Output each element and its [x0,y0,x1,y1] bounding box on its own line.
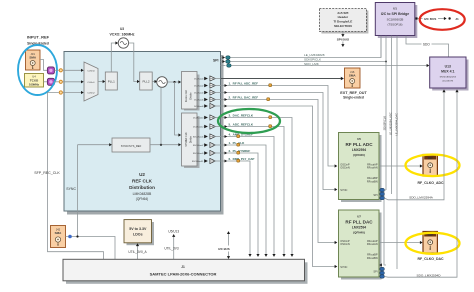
svg-text:Distribution: Distribution [129,185,155,190]
svg-text:Divider: Divider [190,92,193,99]
svg-text:SYNC: SYNC [340,265,347,269]
buffer row DCLKout2 [194,83,220,88]
SPI pin bubbles on U2 [221,56,232,67]
svg-text:SPI: SPI [373,270,377,274]
svg-text:RF_CLKO_DAC: RF_CLKO_DAC [417,257,444,261]
pin dot PL_CLK [237,143,240,146]
wire PLL2 to VCO [152,80,157,83]
svg-text:LE_LMX2594_DAC: LE_LMX2594_DAC [395,113,399,136]
svg-text:OSCinN: OSCinN [340,166,350,170]
wire J31 to balun [40,60,47,71]
pin dot DAC_REFCLK [269,116,272,119]
svg-text:RFoutBN: RFoutBN [367,256,378,260]
buffer row DCLKout8 [194,103,220,108]
wire SYSREF to U7 SYNC [221,105,338,269]
svg-text:UTIL_3V3: UTIL_3V3 [164,247,179,251]
svg-text:2. RF PLL DAC_REF: 2. RF PLL DAC_REF [229,95,259,99]
buffer row DCLKout6 [194,97,220,102]
svg-text:SN74CB3Q3253: SN74CB3Q3253 [440,77,457,79]
wire EXT_REF_OUT feed to J16 [221,77,344,80]
svg-text:SAMTEC LPAM-20X6-CONNECTOR: SAMTEC LPAM-20X6-CONNECTOR [150,271,217,276]
svg-text:REF CLK: REF CLK [132,179,153,184]
input mux inside U2 [84,62,98,101]
svg-text:SDO_LMK: SDO_LMK [304,62,320,66]
U2 REF CLK Distribution block (LMK04828B) [64,52,224,215]
svg-text:SFP_REC_CLK: SFP_REC_CLK [34,171,60,175]
svg-text:VCXO: 160MHz: VCXO: 160MHz [109,33,134,37]
svg-text:U13: U13 [445,65,451,69]
svg-text:U5: U5 [357,137,361,141]
svg-text:SMP: SMP [428,235,433,237]
svg-text:SDI/SPICLK: SDI/SPICLK [383,116,387,131]
svg-text:CLKin2: CLKin2 [87,93,95,95]
wire SPICLK jog to U7 [384,190,386,265]
wire I2C BUS stub to connector [227,231,230,259]
pin CLKin1 [59,80,62,83]
red ellipse highlight I2C BUS [420,9,465,30]
svg-text:DCLKout12: DCLKout12 [193,126,204,129]
svg-text:RFoutAN: RFoutAN [367,242,378,246]
svg-text:SMP: SMP [428,158,433,160]
green ellipse highlight REFCLK nets [218,109,280,133]
svg-text:INPUT_REF: INPUT_REF [27,35,50,40]
svg-text:LMX2594: LMX2594 [352,226,366,230]
wire U7 RFoutA to SMA [379,241,423,244]
svg-text:LDOs: LDOs [133,233,143,237]
svg-text:DCLKout10: DCLKout10 [193,117,204,120]
SMA connector J31 [26,50,41,70]
svg-text:DCLKout6: DCLKout6 [194,99,204,102]
pin CLKin0 [59,69,62,72]
wire pin CLKin1 to mux [63,80,84,83]
2x5 SPI header selection box [319,9,368,34]
svg-text:EXT_REF_OUT: EXT_REF_OUT [340,91,367,95]
svg-text:DCLKout8: DCLKout8 [194,105,204,108]
wire U1 pin LE_DAC riser [396,36,398,269]
arrow into MUX bottom A [442,89,445,92]
svg-text:UTIL_3V0_A: UTIL_3V0_A [128,250,147,254]
svg-text:PLL1: PLL1 [108,80,115,84]
connector J1 SAMTEC [63,259,308,284]
svg-text:(QFN40): (QFN40) [353,153,365,157]
wire RF PLL DAC_REF [221,98,338,244]
SMA connector RF_CLKO_DAC [423,232,437,254]
wire U1 pin LE_LMK down [380,36,382,58]
svg-text:RF PLL DAC: RF PLL DAC [345,219,373,224]
svg-text:TI Dongle/LE: TI Dongle/LE [333,20,352,24]
balun input 0 [47,67,54,74]
wire SYSREF to U5 SYNC [221,91,338,191]
wire mux to PLL1 [98,80,105,83]
wire SFP_REC_CLK riser [48,93,104,260]
svg-text:PLL2: PLL2 [142,80,149,84]
wire PL_CLK to connector [221,144,268,257]
svg-text:DCLKout0: DCLKout0 [194,78,204,81]
svg-text:5V to 3.3V: 5V to 3.3V [129,227,147,231]
wire VCXO to PLL2 [129,43,140,83]
svg-text:(QFN40): (QFN40) [353,230,365,234]
wire VCO to divider1 [167,80,181,83]
svg-text:RFoutBN: RFoutBN [367,179,378,183]
svg-text:SDCLKout11: SDCLKout11 [192,160,204,163]
svg-text:3. DAC_REFCLK: 3. DAC_REFCLK [229,113,254,117]
buffer row SDCLKout1 [193,115,220,120]
svg-text:J1: J1 [181,265,185,269]
wire VCO branch down to divider2 [175,82,182,137]
svg-text:1. RF PLL ADC_REF: 1. RF PLL ADC_REF [229,81,259,85]
svg-text:DCLKout2: DCLKout2 [194,85,204,88]
svg-text:CLKin0: CLKin0 [87,71,95,73]
svg-text:LE_LMK04828: LE_LMK04828 [304,53,325,57]
wire RF PLL ADC_REF [221,84,338,168]
U7 RF PLL DAC (LMX2594) [339,210,382,280]
wire connector to LDO [136,243,139,259]
svg-text:U5/U13: U5/U13 [168,230,179,234]
wire pin CLKin2 to mux [63,91,84,94]
wire connector to U5/U13 3V3 [172,234,175,259]
wire SDI/SPICLK bus [230,61,386,63]
buffer row SDCLKout3 [193,124,220,129]
U13 MUX 4:1 [430,57,469,91]
wire SPICLK riser to LMX [385,62,387,191]
svg-text:CLKin1: CLKin1 [87,82,95,84]
svg-text:6. DDR_PLY_CAP: 6. DDR_PLY_CAP [229,157,255,161]
wire SYNC/SYSREF box to divider2 [150,143,181,146]
svg-text:SMA: SMA [29,56,37,60]
SPI pin bubbles U7 [379,263,384,278]
svg-text:MUX 4:1: MUX 4:1 [441,70,454,74]
svg-text:I2C BUS: I2C BUS [424,17,436,21]
U5 RF PLL ADC (LMX2594) [339,133,382,203]
TCXO U4 [25,74,44,88]
divider block 1 [182,72,200,111]
divider block 2 [182,113,200,168]
wire U1 pin SDI/SPICLK down [385,36,387,62]
yellow ellipse highlight RF_CLKO_ADC [406,155,460,177]
wire TCXO to balun [44,81,48,83]
svg-text:Single-ended: Single-ended [343,95,364,99]
svg-text:I2C to SPI Bridge: I2C to SPI Bridge [381,12,409,16]
wire AMS_SYSREF to connector [221,135,276,257]
buffer row SDCLKout9 [193,150,221,155]
wire LE_LMK04828 bus [230,36,381,58]
svg-text:LE_LMX2594_ADC: LE_LMX2594_ADC [389,112,393,135]
svg-text:(QFN64): (QFN64) [136,197,148,201]
buffer row SDCLKout7 [193,142,221,147]
wire DAC_REFCLK to connector [221,116,294,257]
node SYNC junction [76,235,78,237]
svg-text:J1: J1 [455,17,459,21]
svg-text:SYNC: SYNC [66,187,76,191]
wire pin CLKin0 to mux [63,69,84,72]
buffer row DCLKout4 [194,90,220,95]
svg-text:SDCLKout5: SDCLKout5 [193,136,204,139]
pin dot DDR_PLY_CAP [237,159,240,162]
wire I2C BUS to J1 [415,17,450,20]
SYNC/SYSREF box [112,138,150,152]
svg-text:SYNC/SYS_REF: SYNC/SYS_REF [121,144,142,148]
VCXO U3 oscillator symbol [118,38,128,48]
svg-text:RF PLL ADC: RF PLL ADC [345,142,373,147]
svg-text:SDO_LMX2594D: SDO_LMX2594D [417,273,442,277]
node blue [68,235,72,239]
blue ellipse highlight INPUT_REF [18,45,57,95]
VCO oscillator symbol [157,77,168,88]
svg-text:Device CLK: Device CLK [186,89,188,102]
svg-text:SDO_LMX2594A: SDO_LMX2594A [409,196,434,200]
svg-text:SMA: SMA [349,74,357,78]
pin dot ADC_REFCLK [269,125,272,128]
SMA connector J42 [51,226,66,248]
svg-text:I2C BUS: I2C BUS [218,247,229,251]
node SDI junction [385,61,387,63]
svg-text:TCXO: TCXO [30,78,39,82]
wire SYNC riser [77,145,79,237]
wire J42 to connector [66,237,116,260]
svg-text:SPI BUS: SPI BUS [337,38,349,42]
svg-text:SYNC: SYNC [340,188,347,192]
svg-text:RF_CLKO_ADC: RF_CLKO_ADC [417,181,444,185]
svg-text:5. ADC_REFCLK: 5. ADC_REFCLK [229,122,254,126]
svg-text:OSCinN: OSCinN [340,242,350,246]
wire SYNC into SYNC/SYSREF box [78,143,112,146]
SPI pin bubbles U5 [379,188,384,199]
pin dot RF PLL ADC_REF [269,84,272,87]
svg-text:RFoutAN: RFoutAN [367,166,378,170]
wire U5 RFoutA to SMA [379,164,423,167]
wire PL_SYSREF to connector [221,152,260,257]
SMA connector RF_CLKO_ADC [423,155,437,177]
pin dot AMS_SYSREF [237,135,240,138]
wire balun0 to pin [54,69,58,71]
node VCO branch [173,81,175,83]
svg-text:SDCLKout9: SDCLKout9 [193,152,204,155]
wire DDR_PLY_CAP to connector [221,160,252,257]
pin dot PL_SYSREF [237,151,240,154]
svg-text:Header: Header [338,15,349,19]
balun input 1 [47,78,54,85]
yellow ellipse highlight RF_CLKO_DAC [406,233,460,254]
pin dot RF PLL DAC_REF [267,98,270,101]
U3 label [109,27,134,37]
wire U1 pin LE_ADC riser [391,36,393,194]
wire U1 SDO to MUX [406,36,449,57]
wire SDO_LMX2594D to MUX [384,92,457,277]
svg-text:SYSREF CLK: SYSREF CLK [186,132,188,147]
svg-text:SELECTION: SELECTION [334,24,352,28]
wire SDO_LMX2594A to MUX [384,92,444,200]
wire SPI BUS stub [341,32,344,48]
svg-text:2x5 SPI: 2x5 SPI [337,11,348,15]
PLL1 [105,72,117,90]
wire balun1 to pin [54,81,58,83]
svg-text:U2: U2 [139,172,145,177]
U1 I2C to SPI Bridge [375,3,417,39]
wire VCO bottom to SYSREF line [160,87,162,144]
wire SDO_LMK to MUX [231,64,429,67]
buffer row DCLKout0 [194,76,220,81]
svg-text:(TSSOP16): (TSSOP16) [388,23,403,27]
svg-text:100MHz: 100MHz [29,82,40,86]
svg-text:U3: U3 [120,27,124,31]
wire PLL1 to VCXO U3 [111,41,118,72]
svg-text:SDO: SDO [423,43,430,47]
arrow into MUX bottom D [455,89,458,92]
svg-text:LMX2594: LMX2594 [352,148,366,152]
svg-text:(16-SSOP): (16-SSOP) [442,81,453,83]
svg-text:SPI: SPI [373,193,377,197]
svg-text:SDCLKout7: SDCLKout7 [193,144,204,147]
pin CLKin2 [59,91,62,94]
buffer row SDCLKout11 [192,158,221,163]
PLL2 [140,72,153,90]
svg-text:SPI: SPI [213,59,219,63]
svg-text:DCLKout4: DCLKout4 [194,92,204,95]
LDO block 5V to 3.3V [124,220,154,246]
svg-text:SMA: SMA [55,231,63,235]
buffer row SDCLKout5 [193,134,221,139]
wire ADC_REFCLK to connector [221,125,286,257]
svg-text:U7: U7 [357,215,361,219]
svg-text:U1: U1 [393,7,397,11]
node SYSREF feed [160,144,162,146]
svg-text:SC18IS602B: SC18IS602B [387,18,404,22]
SMA connector J16 [345,68,361,88]
svg-text:LMK04828B: LMK04828B [133,192,152,196]
